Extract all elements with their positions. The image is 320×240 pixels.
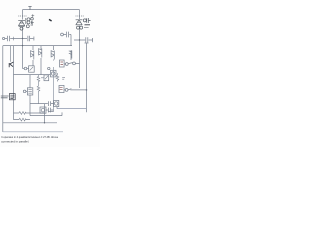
svg-text:connected in parallel.: connected in parallel. [1, 140, 29, 144]
svg-text:It operates in 4 quadrants bet: It operates in 4 quadrants between ± 27 … [1, 135, 58, 139]
